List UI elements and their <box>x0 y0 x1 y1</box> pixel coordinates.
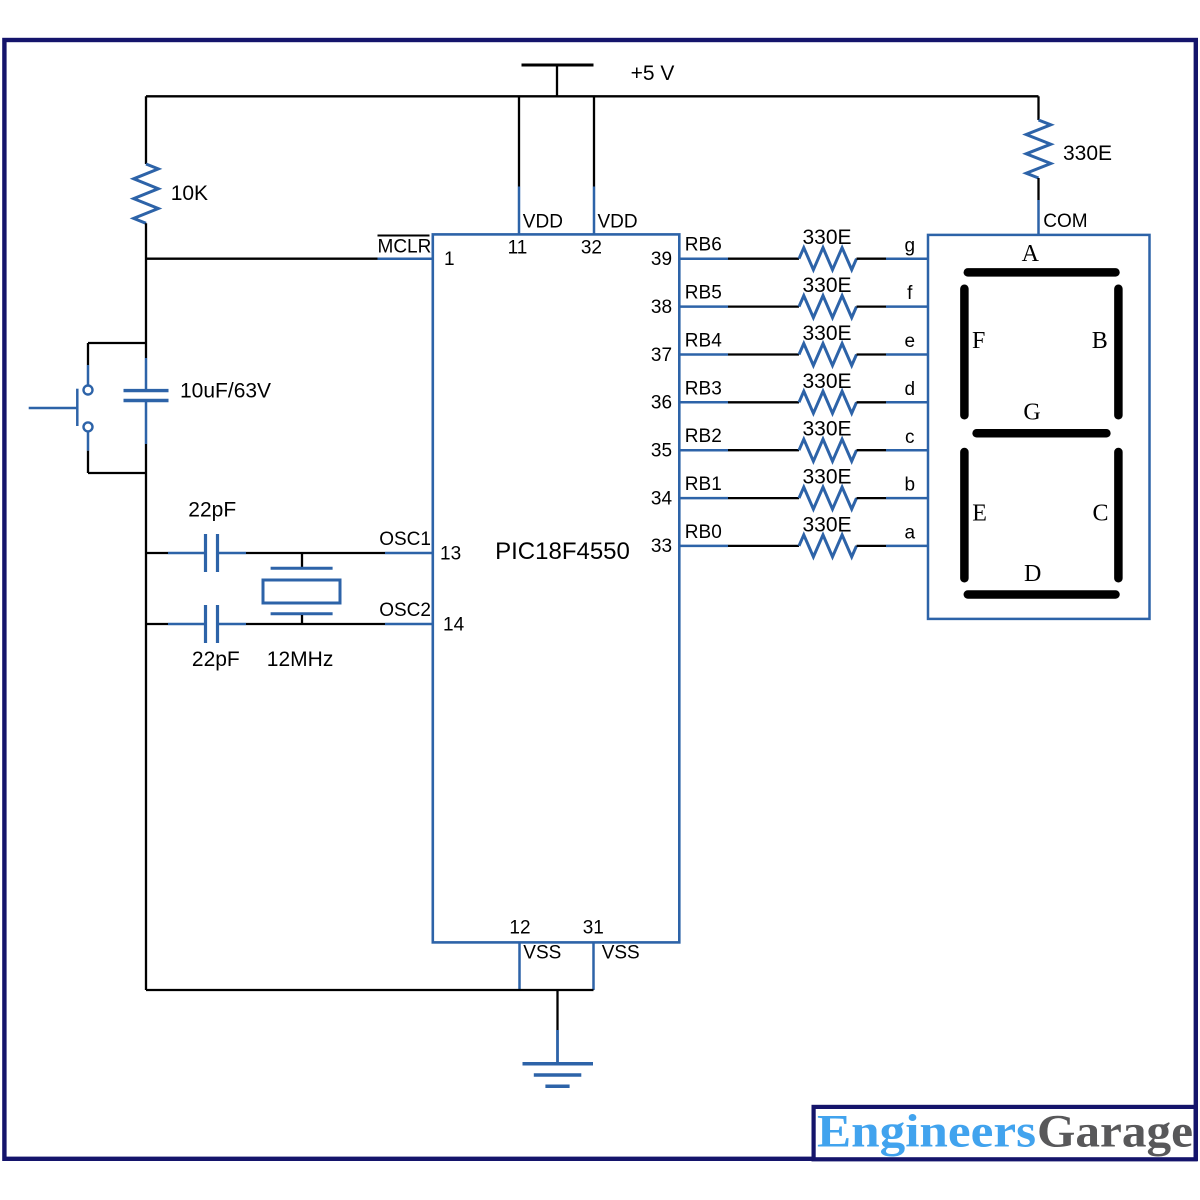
label RB3 <box>685 378 722 399</box>
segment D bar <box>968 590 1116 599</box>
svg-text:12: 12 <box>509 917 530 938</box>
svg-text:G: G <box>1023 400 1040 426</box>
svg-text:PIC18F4550: PIC18F4550 <box>495 538 630 565</box>
svg-text:32: 32 <box>581 237 602 258</box>
wire resistor to display c <box>857 449 929 451</box>
label segment pin g <box>905 235 916 256</box>
label RB1 <box>685 474 722 495</box>
label 330E row c <box>802 418 851 441</box>
resistor Rd 330E <box>799 391 857 413</box>
wire COM stub <box>1037 178 1039 235</box>
svg-text:OSC1: OSC1 <box>379 529 431 550</box>
wire RB6 to resistor <box>728 258 799 260</box>
label 330E row b <box>802 466 851 489</box>
label COM <box>1043 211 1087 232</box>
wire left rail upper <box>145 96 147 164</box>
IC U1 PIC18F4550 body <box>433 234 680 942</box>
svg-text:11: 11 <box>508 237 528 258</box>
label RB6 <box>685 235 722 256</box>
resistor R1 10K <box>134 164 159 223</box>
label MCLR with overline <box>378 236 432 258</box>
label C <box>1092 501 1108 527</box>
svg-text:VSS: VSS <box>523 943 561 964</box>
svg-text:VDD: VDD <box>598 212 638 233</box>
resistor Rg 330E <box>799 248 857 270</box>
svg-text:330E: 330E <box>802 226 851 249</box>
wire OSC1 net <box>146 552 433 554</box>
pin 32 label <box>581 237 602 258</box>
svg-text:RB4: RB4 <box>685 331 722 352</box>
svg-text:35: 35 <box>651 441 672 462</box>
svg-text:F: F <box>972 328 985 354</box>
resistor Re 330E <box>799 344 857 366</box>
label RB4 <box>685 331 722 352</box>
label E <box>972 501 987 527</box>
wire VSS pin31 <box>592 942 595 990</box>
label VDD pin11 <box>523 212 563 233</box>
resistor Rf 330E <box>799 296 857 318</box>
svg-text:c: c <box>905 427 915 448</box>
svg-text:d: d <box>905 379 916 400</box>
wire RB3 to resistor <box>728 401 799 403</box>
label VSS pin12 <box>523 943 561 964</box>
wire RB5 to resistor <box>728 305 799 307</box>
svg-text:34: 34 <box>651 488 673 509</box>
wire RB1 pin stub <box>679 497 728 500</box>
label 330E row g <box>802 226 851 249</box>
svg-text:Engineers: Engineers <box>817 1105 1036 1157</box>
label OSC2 <box>379 600 431 621</box>
label segment pin d <box>905 379 916 400</box>
svg-text:COM: COM <box>1043 211 1087 232</box>
label 330E row f <box>802 274 851 297</box>
svg-text:330E: 330E <box>802 418 851 441</box>
label RB2 <box>685 426 722 447</box>
wire MCLR net <box>146 258 433 260</box>
label RB0 <box>685 522 722 543</box>
wire RB2 pin stub <box>679 449 728 452</box>
svg-text:1: 1 <box>444 249 455 270</box>
label 330E row a <box>802 513 851 536</box>
pin 31 label <box>583 917 604 938</box>
pin 12 label <box>509 917 530 938</box>
resistor Ra 330E <box>799 535 857 557</box>
svg-text:12MHz: 12MHz <box>267 648 334 671</box>
svg-text:38: 38 <box>651 297 672 318</box>
pin 38 label <box>651 297 672 318</box>
svg-text:MCLR: MCLR <box>378 237 432 258</box>
label 330E COM <box>1063 142 1112 165</box>
wire resistor to display b <box>857 497 929 499</box>
label F <box>972 328 985 354</box>
capacitor C2 22pF <box>206 534 218 572</box>
wire RB0 to resistor <box>728 545 799 547</box>
svg-text:B: B <box>1092 328 1108 354</box>
svg-text:10K: 10K <box>171 182 208 205</box>
svg-text:VSS: VSS <box>602 943 640 964</box>
wire ground stem <box>556 990 558 1063</box>
pin 35 label <box>651 441 672 462</box>
svg-text:33: 33 <box>651 536 672 557</box>
wire OSC2 net <box>146 623 433 625</box>
wire RB6 pin stub <box>679 257 728 260</box>
wire RB1 to resistor <box>728 497 799 499</box>
label 330E row e <box>802 322 851 345</box>
segment B bar <box>1114 289 1123 415</box>
label RB5 <box>685 283 722 304</box>
wire left rail mid <box>145 402 148 990</box>
svg-text:10uF/63V: 10uF/63V <box>180 380 271 403</box>
svg-text:D: D <box>1024 561 1041 587</box>
pin 34 label <box>651 488 673 509</box>
label segment pin a <box>905 523 916 544</box>
pin 37 label <box>651 345 672 366</box>
svg-text:e: e <box>905 331 916 352</box>
crystal X1 12MHz <box>263 568 340 614</box>
label +5 V <box>631 62 675 85</box>
svg-text:39: 39 <box>651 249 672 270</box>
label G <box>1023 400 1040 426</box>
svg-text:330E: 330E <box>802 370 851 393</box>
resistor R2 330E COM <box>1026 120 1051 178</box>
segment E bar <box>960 452 969 578</box>
svg-text:37: 37 <box>651 345 672 366</box>
ground symbol <box>523 1064 594 1087</box>
segment G bar <box>977 429 1107 438</box>
svg-text:OSC2: OSC2 <box>379 600 431 621</box>
svg-text:RB6: RB6 <box>685 235 722 256</box>
wire RB3 pin stub <box>679 401 728 404</box>
wire resistor to display e <box>857 353 929 355</box>
wire RB4 pin stub <box>679 353 728 356</box>
wire RB4 to resistor <box>728 353 799 355</box>
wire resistor to display f <box>857 305 929 307</box>
wire resistor to display a <box>857 545 929 547</box>
label segment pin e <box>905 331 916 352</box>
label 10K <box>171 182 208 205</box>
segment F bar <box>960 289 969 415</box>
wire top right drop <box>1037 96 1039 120</box>
svg-text:VDD: VDD <box>523 212 563 233</box>
svg-text:14: 14 <box>443 615 465 636</box>
pin 36 label <box>651 393 672 414</box>
capacitor C3 22pF <box>206 605 218 643</box>
7-segment display U2 body <box>928 235 1150 619</box>
svg-text:36: 36 <box>651 393 672 414</box>
wire crystal top stub <box>301 553 303 567</box>
label D <box>1024 561 1041 587</box>
svg-text:330E: 330E <box>1063 142 1112 165</box>
svg-text:330E: 330E <box>802 513 851 536</box>
wire left rail below 10K <box>145 223 147 358</box>
svg-text:330E: 330E <box>802 466 851 489</box>
wire crystal bottom stub <box>301 615 303 624</box>
label 22pF bottom <box>192 648 240 671</box>
pin 33 label <box>651 536 672 557</box>
segment A bar <box>968 268 1116 277</box>
wire +5V top rail <box>146 95 1039 97</box>
label VDD pin32 <box>598 212 638 233</box>
svg-text:A: A <box>1022 241 1040 267</box>
svg-text:RB0: RB0 <box>685 522 722 543</box>
svg-text:13: 13 <box>440 544 461 565</box>
svg-text:C: C <box>1092 501 1108 527</box>
resistor Rb 330E <box>799 487 857 509</box>
pin 1 label <box>444 249 455 270</box>
svg-text:31: 31 <box>583 917 604 938</box>
wire VSS pin12 <box>518 942 521 990</box>
power +5V supply symbol <box>522 65 594 96</box>
svg-text:330E: 330E <box>802 274 851 297</box>
svg-text:Garage: Garage <box>1037 1105 1193 1157</box>
svg-text:22pF: 22pF <box>188 499 236 522</box>
svg-text:f: f <box>907 283 913 304</box>
svg-text:RB3: RB3 <box>685 378 722 399</box>
pin 13 label <box>440 544 461 565</box>
pin 14 label <box>443 615 465 636</box>
label segment pin f <box>907 283 913 304</box>
wire VDD pin32 <box>593 96 595 234</box>
label 22pF top <box>188 499 236 522</box>
label PIC18F4550 <box>495 538 630 565</box>
label 330E row d <box>802 370 851 393</box>
svg-text:E: E <box>972 501 987 527</box>
wire button bottom <box>88 451 146 473</box>
label B <box>1092 328 1108 354</box>
label OSC1 <box>379 529 431 550</box>
svg-text:RB1: RB1 <box>685 474 722 495</box>
wire RB5 pin stub <box>679 305 728 308</box>
svg-text:a: a <box>905 523 916 544</box>
svg-text:RB5: RB5 <box>685 283 722 304</box>
label 10uF/63V <box>180 380 271 403</box>
wire RB2 to resistor <box>728 449 799 451</box>
wire resistor to display d <box>857 401 929 403</box>
wire cap C1 top lead <box>145 358 148 389</box>
label 12MHz <box>267 648 334 671</box>
svg-text:b: b <box>905 475 916 496</box>
wire button top <box>88 343 146 365</box>
svg-text:330E: 330E <box>802 322 851 345</box>
label segment pin b <box>905 475 916 496</box>
pin 39 label <box>651 249 672 270</box>
label segment pin c <box>905 427 915 448</box>
resistor Rc 330E <box>799 439 857 461</box>
pin 11 label <box>508 237 528 258</box>
label VSS pin31 <box>602 943 640 964</box>
wire resistor to display g <box>857 258 929 260</box>
wire RB0 pin stub <box>679 545 728 548</box>
svg-text:RB2: RB2 <box>685 426 722 447</box>
svg-text:22pF: 22pF <box>192 648 240 671</box>
svg-text:+5 V: +5 V <box>631 62 675 85</box>
capacitor C1 10uF/63V <box>124 391 169 401</box>
wire VDD pin11 <box>518 96 520 234</box>
switch S1 push button <box>29 365 93 451</box>
svg-text:g: g <box>905 235 916 256</box>
label A <box>1022 241 1040 267</box>
logo EngineersGarage <box>814 1105 1196 1159</box>
wire bottom rail <box>146 989 594 991</box>
segment C bar <box>1114 452 1123 578</box>
